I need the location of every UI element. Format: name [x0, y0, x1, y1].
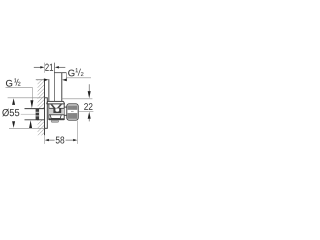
label slash left: [16, 79, 18, 86]
valve body block: [48, 104, 50, 120]
pipe centerline / 21 ext: [54, 63, 56, 102]
wall face line: [44, 80, 46, 109]
thread notch 2: [36, 115, 40, 117]
leader arrow G1/2 left down: [30, 100, 33, 108]
dim 22 bottom stem: [88, 118, 90, 121]
valve body right side: [63, 104, 65, 120]
bonnet funnel right stroke: [57, 104, 62, 108]
pipe G1/2 top outlet: [48, 79, 50, 101]
thread up arrow: [29, 120, 32, 128]
dim 21 left arrow: [40, 66, 44, 68]
leader arrow G1/2 right: [65, 79, 68, 81]
underline G1/2 left: [6, 86, 33, 88]
pipe right edge: [61, 73, 63, 102]
dim 58 left arrow: [45, 139, 49, 141]
supply stub bottom edge: [25, 119, 45, 121]
dim Ø55: [8, 97, 45, 99]
wall hatch upper: [38, 80, 45, 109]
thread notch 1: [36, 111, 40, 113]
dim text 21: [45, 64, 53, 71]
label sub 2 right: [81, 72, 84, 76]
outlet neck: [64, 106, 67, 108]
valve body collar: [48, 100, 64, 102]
dim 21 right arrow: [55, 66, 59, 68]
dim 22 top arrow: [88, 91, 91, 98]
label sup 1 left: [14, 78, 16, 82]
dim 21: [44, 63, 46, 73]
dim text diameter 55: [2, 109, 19, 117]
dim 22 top stem: [88, 84, 90, 91]
dim 58 left line: [49, 139, 55, 141]
dim 22 bottom arrow: [88, 112, 91, 119]
dim text 22: [84, 103, 92, 110]
dim 22: [62, 98, 93, 100]
dim 55 bottom ext: [9, 127, 45, 129]
underline G1/2 right: [66, 77, 91, 79]
label sub 2 left: [18, 82, 21, 86]
leader drop G1/2 right: [65, 73, 67, 80]
dim 21 right tail: [59, 66, 66, 68]
dim text 58: [56, 137, 65, 144]
escutcheon Ø55: [45, 98, 48, 129]
stub centerline: [21, 113, 36, 115]
compression nut: [67, 104, 78, 120]
dim 55 down arrow: [12, 121, 15, 128]
bonnet funnel left stroke: [50, 104, 55, 108]
supply stub top edge: [25, 108, 45, 110]
valve seat: [49, 108, 64, 115]
wall hatch lower: [38, 120, 45, 136]
wall face line lower segment: [44, 120, 46, 136]
foot: [50, 115, 61, 119]
dim 58 right ext: [77, 121, 79, 144]
dim 58: [44, 135, 46, 144]
dim 58 right arrow: [73, 139, 77, 141]
pipe rim: [54, 72, 66, 74]
leader drop G1/2 left: [31, 87, 33, 100]
label G right: [68, 70, 74, 77]
dim 55 up arrow: [12, 98, 15, 105]
label slash right: [78, 69, 81, 76]
leader arrow at wall: [36, 79, 45, 81]
label sup 1 right: [76, 68, 78, 72]
dim 58 right line: [66, 139, 74, 141]
stub thread block: [36, 109, 40, 120]
label G left: [6, 80, 12, 87]
dim 22 bottom ext: [78, 110, 93, 112]
